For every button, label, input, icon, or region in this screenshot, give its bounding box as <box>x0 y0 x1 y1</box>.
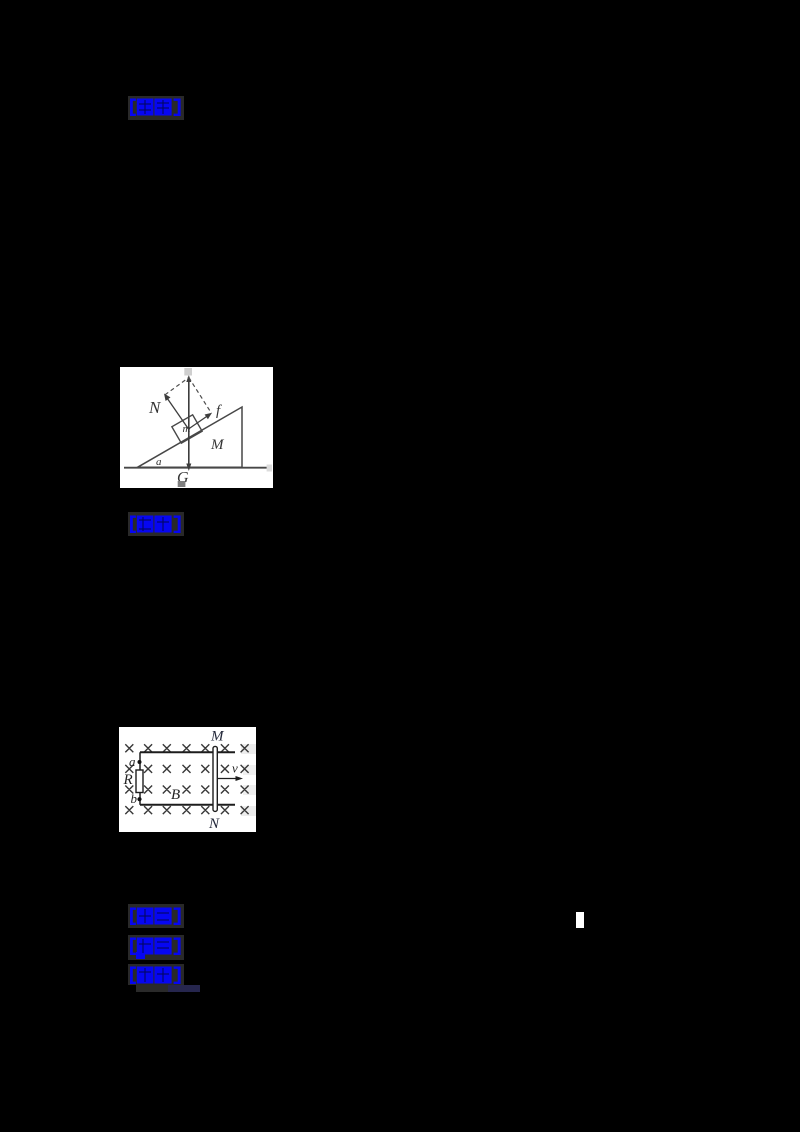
selection handle top <box>184 368 192 376</box>
faint right-edge shading <box>241 744 256 754</box>
normal force N arrow <box>164 394 189 430</box>
svg-text:R: R <box>123 772 133 788</box>
svg-text:N: N <box>148 398 162 417</box>
wedge M <box>138 407 243 467</box>
bottom rail <box>140 804 235 806</box>
svg-text:a: a <box>129 754 136 769</box>
friction f arrow <box>189 413 213 429</box>
label tag2 <box>128 512 184 536</box>
left wire <box>139 752 141 805</box>
svg-text:N: N <box>208 816 220 832</box>
svg-text:a: a <box>156 456 162 468</box>
resultant force arrow (vertical up) <box>186 375 191 429</box>
label tag1 (blue highlighted) <box>128 96 184 120</box>
svg-text:m: m <box>183 423 191 435</box>
node b <box>137 797 141 801</box>
label tag3 <box>128 904 184 928</box>
block m <box>172 415 202 443</box>
gravity G arrow (vertical down) <box>186 429 191 471</box>
svg-text:B: B <box>171 787 180 803</box>
selection handle right <box>267 465 272 472</box>
velocity v arrow <box>218 776 244 781</box>
dashed construction line resultant tip to f-tip <box>189 378 212 414</box>
label tag5 + selection continuation <box>128 964 184 985</box>
svg-text:M: M <box>210 729 225 745</box>
svg-text:b: b <box>131 791 138 806</box>
text cursor <box>576 912 584 928</box>
selection handle bottom <box>178 481 186 487</box>
svg-text:v: v <box>232 761 238 776</box>
field crosses B (into page) <box>125 744 248 814</box>
node a <box>138 760 142 764</box>
rod MN <box>213 746 217 811</box>
picture 1: inclined plane force diagram <box>120 367 273 488</box>
picture 2: electromagnetic induction circuit <box>119 727 256 832</box>
svg-text:f: f <box>216 403 222 419</box>
dashed construction line N-tip to resultant tip <box>165 378 189 395</box>
top rail <box>140 751 235 753</box>
label tag4 <box>128 935 184 960</box>
ground line <box>124 467 267 469</box>
resistor R <box>136 770 143 793</box>
svg-text:M: M <box>210 437 225 453</box>
